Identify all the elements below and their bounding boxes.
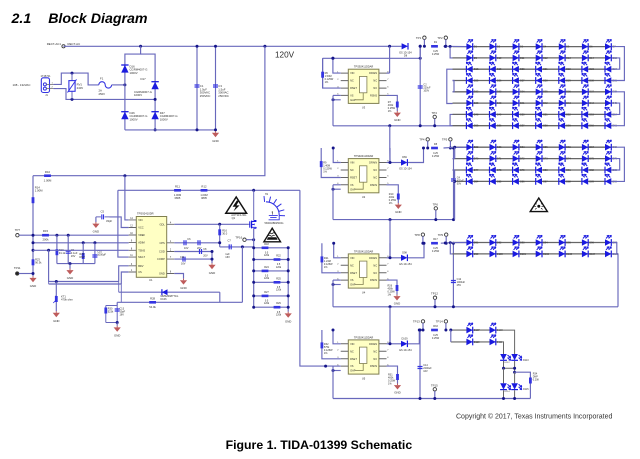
svg-text:D74: D74 — [566, 158, 571, 161]
ground U1 — [180, 279, 187, 291]
svg-text:D98: D98 — [402, 251, 407, 254]
svg-text:NC: NC — [373, 349, 377, 353]
op-amp U1 TPS92410DR — [136, 212, 166, 283]
label C10 — [97, 250, 106, 257]
wire fuse to bridge — [112, 84, 125, 86]
wire C4 vertical — [453, 148, 455, 220]
U4 pin stubs — [337, 256, 389, 280]
LED D58 — [536, 119, 549, 130]
wire bridge top right — [141, 54, 156, 99]
wire ch2 row 1 — [453, 146, 612, 148]
LED D92 — [490, 235, 503, 246]
wire TP14 stub — [445, 323, 447, 330]
thermistor KT1 mark — [53, 296, 55, 303]
wire C2 vertical — [419, 46, 421, 126]
svg-text:470k ohm: 470k ohm — [61, 298, 74, 302]
svg-text:TPS92411DDAR: TPS92411DDAR — [354, 249, 374, 253]
junction VIN feed — [123, 174, 126, 177]
svg-text:U4: U4 — [362, 290, 366, 294]
ground sense bank — [285, 312, 292, 324]
label R23 — [35, 257, 42, 264]
svg-text:R24: R24 — [264, 266, 269, 269]
op-amp U2 TPS92411DDAR — [348, 154, 379, 199]
label C16 value — [197, 247, 202, 250]
svg-text:ADIM: ADIM — [138, 241, 144, 245]
LED D23 — [582, 62, 595, 73]
op-amp U5 TPS92411DDAR — [348, 335, 379, 380]
LED D34 — [513, 85, 526, 96]
svg-text:R17: R17 — [433, 238, 438, 241]
svg-text:CPS: CPS — [159, 241, 165, 245]
label D8 part — [399, 52, 412, 58]
svg-text:D40: D40 — [497, 102, 502, 105]
transistor Q1 — [248, 190, 256, 228]
svg-text:2.1: 2.1 — [11, 11, 32, 27]
wire bank right rail — [287, 248, 289, 312]
wire U4 drain — [387, 257, 391, 259]
U1 pin stubs left — [129, 220, 137, 272]
svg-text:F1: F1 — [100, 77, 104, 81]
svg-text:D28: D28 — [543, 79, 548, 82]
svg-text:100V: 100V — [423, 90, 429, 93]
diode D46 — [121, 111, 147, 121]
svg-text:DRAIN: DRAIN — [369, 342, 377, 346]
label R28 — [150, 296, 155, 300]
svg-text:240V: 240V — [77, 86, 84, 90]
label R8 — [434, 143, 438, 146]
LED D62 — [466, 140, 479, 151]
junction C4 bottom — [452, 218, 455, 221]
label R18 value — [264, 251, 270, 257]
svg-text:R11: R11 — [175, 184, 180, 188]
diode D17 — [151, 82, 158, 90]
LED D20 — [513, 62, 526, 73]
svg-text:D34: D34 — [520, 91, 525, 94]
svg-text:D84: D84 — [474, 180, 479, 183]
LED D42 — [536, 96, 549, 107]
svg-text:D109: D109 — [402, 337, 409, 340]
svg-text:D75: D75 — [589, 158, 594, 161]
junction CS drop — [241, 245, 244, 248]
svg-text:VREF: VREF — [138, 233, 145, 237]
resistor R9 — [320, 161, 323, 167]
wire CS vertical — [121, 272, 128, 284]
wire ch1 bracket R r1-r4 — [612, 47, 625, 81]
wire bank rung R24 — [254, 270, 289, 272]
wire ch1 bracket L r7-r8 — [450, 114, 452, 125]
label R33 — [433, 325, 438, 328]
label R11 value — [174, 193, 181, 200]
svg-text:VCC: VCC — [138, 226, 144, 230]
label R9 — [323, 162, 332, 174]
LED D5 — [559, 39, 570, 50]
svg-text:D95: D95 — [566, 241, 571, 244]
LED D72 — [513, 151, 526, 162]
wire ch3 bracket L r1-r2 — [450, 243, 452, 254]
LED D108 — [490, 323, 504, 334]
svg-text:Copyright © 2017, Texas Instru: Copyright © 2017, Texas Instruments Inco… — [456, 413, 612, 421]
LED D55 — [466, 119, 479, 130]
U1 pin numbers — [130, 218, 172, 274]
wire ch3 feed to array — [441, 242, 467, 245]
svg-text:NC: NC — [373, 168, 377, 172]
svg-text:D67: D67 — [589, 146, 594, 149]
wire U3 bottom rail — [333, 125, 452, 127]
svg-text:D96: D96 — [589, 241, 594, 244]
wire R34 bottom — [529, 384, 531, 399]
capacitor C9 — [66, 251, 71, 253]
wire bridge right rail lower — [154, 99, 156, 129]
junction KT1 tap — [55, 280, 58, 283]
LED D81 — [559, 163, 572, 174]
label R1 — [434, 41, 438, 44]
test point TP4 — [419, 138, 429, 142]
wire U2 rsns — [387, 185, 399, 203]
wire after D8 — [419, 46, 421, 58]
svg-text:D32: D32 — [474, 91, 479, 94]
svg-text:D49: D49 — [497, 113, 502, 116]
wire U3 drain — [387, 72, 390, 74]
label C7 value — [225, 252, 230, 259]
junctions ch4 mid — [502, 367, 516, 374]
wire ch1 row 6 — [453, 102, 612, 104]
junction bridge AC2 — [154, 98, 157, 101]
svg-text:RSNS: RSNS — [370, 278, 377, 282]
svg-text:C7: C7 — [228, 239, 232, 243]
wire TP9 stub — [445, 236, 447, 243]
label R31 — [388, 374, 396, 386]
wire after D109 — [408, 330, 420, 344]
LED D75 — [582, 151, 595, 162]
LED D86 — [513, 174, 526, 185]
LED D6 — [582, 39, 593, 50]
section heading 2.1 Block Diagram — [11, 11, 148, 27]
junction TSNS drop — [47, 249, 50, 252]
test point TP15 — [431, 383, 438, 391]
svg-text:D55: D55 — [474, 125, 479, 128]
label R29 — [276, 302, 281, 305]
svg-text:1000V: 1000V — [160, 117, 168, 121]
LED D105 — [605, 247, 619, 258]
resistor R16 — [218, 229, 221, 235]
svg-text:GND: GND — [212, 139, 218, 143]
svg-text:D62: D62 — [474, 146, 479, 149]
svg-text:U3: U3 — [362, 106, 366, 110]
wire ch4 pair2 bottom left — [503, 390, 505, 398]
wire ch1 bracket L r4-r5 — [453, 81, 455, 92]
U1 pin stubs right — [167, 224, 175, 273]
LED D87 — [536, 174, 549, 185]
svg-text:120k: 120k — [264, 302, 270, 305]
junction TP6 rail — [434, 218, 437, 221]
LED D115 — [511, 383, 529, 391]
LED D40 — [490, 96, 503, 107]
label R25 value — [276, 286, 282, 292]
svg-text:U5: U5 — [362, 376, 366, 380]
wire bank rung R25 — [254, 281, 289, 283]
junctions VREF hang — [55, 234, 69, 237]
svg-text:GND: GND — [30, 284, 36, 288]
junction U5 vs-gap — [332, 369, 335, 372]
label C8 value — [203, 255, 208, 258]
svg-text:D112: D112 — [505, 362, 511, 364]
svg-text:D88: D88 — [566, 180, 571, 183]
label R19 — [59, 248, 66, 255]
wire U4 rsns — [387, 280, 398, 294]
svg-text:C11: C11 — [180, 256, 185, 259]
ground R30C13 — [114, 326, 121, 338]
svg-text:10V: 10V — [184, 247, 189, 250]
LED D15 — [605, 51, 618, 62]
wire U4 drain vertical — [389, 243, 391, 258]
svg-text:VIN: VIN — [138, 218, 142, 222]
wire ch1 row 5 — [453, 91, 612, 93]
junction C1 top — [196, 45, 199, 48]
wire GDL to gate — [174, 223, 248, 225]
wire ch1 feed to array — [444, 45, 467, 47]
svg-text:GDL: GDL — [159, 222, 165, 226]
LED D107 — [466, 323, 480, 334]
ground bridge output — [212, 131, 219, 143]
label R26 — [388, 285, 396, 297]
wire ch4 row1 — [451, 329, 498, 331]
wire CS lower line — [49, 283, 122, 285]
junction C3 bottom — [214, 128, 217, 131]
svg-text:120V: 120V — [275, 51, 295, 60]
svg-text:D110: D110 — [474, 341, 480, 344]
wire thermistor feed — [49, 250, 119, 281]
svg-text:D12: D12 — [543, 57, 548, 60]
svg-text:1000V: 1000V — [130, 71, 138, 75]
LED D33 — [490, 85, 503, 96]
junction C1 bottom — [196, 128, 199, 131]
svg-text:GND: GND — [394, 118, 400, 122]
junction U4 vin — [332, 242, 335, 245]
wire ch4 pair2 bottom right — [514, 390, 516, 398]
wire ch2 row 3 — [453, 169, 612, 171]
LED D13 — [559, 51, 572, 62]
LED D18 — [466, 62, 479, 73]
LED D37 — [582, 85, 595, 96]
junction U4 vs-gap — [332, 283, 335, 286]
junction D8 out — [419, 45, 422, 48]
svg-text:VS: VS — [350, 278, 354, 282]
wire ch1 bracket R r2-r3 — [612, 58, 620, 69]
junction tie gnd — [69, 262, 72, 265]
svg-text:D10: D10 — [497, 57, 502, 60]
resistor R1 — [431, 45, 438, 48]
svg-text:D60: D60 — [589, 125, 594, 128]
wire bank rung R29 — [254, 306, 289, 308]
resistor R27 — [262, 295, 269, 298]
junction TP5 — [449, 147, 452, 150]
wire ch1 bracket L r1-r2 — [450, 47, 452, 58]
label 108-132VAC — [13, 83, 31, 87]
svg-text:D57: D57 — [520, 125, 525, 128]
svg-text:ES 1D-154: ES 1D-154 — [399, 349, 412, 352]
svg-text:TPS92410DR: TPS92410DR — [137, 212, 154, 216]
junction TP4 — [426, 147, 429, 150]
label R33 value — [432, 334, 440, 340]
junctions ch1 feed — [444, 45, 452, 48]
label R27 value — [264, 300, 270, 306]
svg-text:DNP: DNP — [79, 255, 85, 259]
svg-text:VIN: VIN — [350, 342, 354, 346]
test point TP8 — [414, 233, 424, 237]
wire TP16 — [246, 239, 254, 241]
capacitor C14 — [418, 367, 423, 369]
svg-text:0805: 0805 — [175, 196, 181, 200]
LED D95 — [559, 235, 572, 246]
resistor R32 — [321, 342, 324, 348]
test point TP3 — [432, 111, 438, 119]
zener D106 — [162, 289, 168, 295]
svg-text:D93: D93 — [520, 241, 525, 244]
warning triangle laser ch2 — [530, 198, 547, 212]
wire U2 drain diode seg — [390, 162, 401, 164]
test point TP1 — [416, 36, 426, 40]
wire BDV zener line — [119, 291, 220, 293]
svg-text:D91: D91 — [474, 241, 479, 244]
wire top rail RECT-AC — [64, 45, 402, 47]
svg-text:DRAIN: DRAIN — [369, 256, 377, 260]
junction C2 bottom — [419, 124, 422, 127]
svg-text:D72: D72 — [520, 158, 525, 161]
wire BDV drop2 — [118, 282, 120, 293]
svg-text:0.25W: 0.25W — [432, 337, 440, 340]
wire ch2 bracket R r1-r4 — [612, 147, 625, 181]
wire CS lower line stub — [48, 282, 50, 285]
svg-text:RECT-AC1: RECT-AC1 — [47, 42, 62, 46]
svg-text:25V: 25V — [457, 284, 462, 287]
wire R16 vertical — [219, 224, 221, 247]
test point TP6 — [433, 202, 439, 210]
junction TP3 rail — [433, 124, 436, 127]
resistor R15 — [42, 234, 49, 237]
capacitor C6 — [184, 240, 186, 245]
svg-text:RSNS: RSNS — [370, 94, 377, 98]
svg-text:TP16: TP16 — [235, 235, 242, 239]
svg-text:D78: D78 — [497, 169, 502, 172]
label C8 — [203, 248, 207, 251]
junction main bus top — [263, 45, 266, 48]
ground cap cluster — [208, 263, 215, 275]
svg-text:D107: D107 — [474, 329, 480, 332]
svg-text:DRAIN: DRAIN — [369, 71, 377, 75]
svg-text:GND: GND — [395, 210, 401, 214]
svg-text:TP7: TP7 — [15, 228, 21, 232]
svg-text:D41: D41 — [520, 102, 525, 105]
wire zener to CS net — [219, 292, 221, 302]
LED D54 — [605, 107, 618, 118]
svg-text:D18: D18 — [474, 68, 479, 71]
label C14 — [423, 364, 432, 373]
svg-text:TP15: TP15 — [431, 383, 438, 387]
wire ch2 exit r4 stub — [453, 180, 455, 182]
capacitor C10 — [92, 255, 97, 257]
svg-text:D51: D51 — [543, 113, 548, 116]
wire bank left rail — [253, 248, 255, 307]
test point TP14 — [436, 320, 448, 324]
label R20 — [79, 252, 85, 259]
wire KT1 vertical — [55, 282, 57, 312]
LED D63 — [490, 140, 503, 151]
svg-text:D80: D80 — [543, 169, 548, 172]
label R17 — [433, 238, 438, 241]
wire U5 gap — [333, 370, 341, 372]
LED D36 — [559, 85, 572, 96]
wire ch4 pair1 join left — [504, 361, 515, 368]
LED D14 — [582, 51, 595, 62]
svg-text:AOT11S-60L: AOT11S-60L — [231, 213, 247, 217]
wire bridge left rail lower — [124, 85, 126, 130]
svg-text:D23: D23 — [589, 68, 594, 71]
wire ch1 row8 to rail — [451, 125, 454, 127]
wire ADIM line — [33, 242, 129, 244]
svg-text:90.3k: 90.3k — [35, 260, 42, 264]
capacitor C5 — [96, 210, 113, 223]
svg-text:D85: D85 — [497, 180, 502, 183]
junction VREF left bus — [32, 234, 35, 237]
svg-text:D29: D29 — [566, 79, 571, 82]
svg-text:RSNS: RSNS — [370, 183, 377, 187]
svg-text:D82: D82 — [589, 169, 594, 172]
wire U3 drain vertical — [389, 46, 391, 73]
resistor R22 — [274, 258, 281, 261]
wire U5 vin — [333, 330, 341, 344]
svg-text:GAP: GAP — [350, 283, 356, 287]
junction R30C13 bottom — [116, 321, 119, 324]
LED D113 — [511, 354, 529, 362]
capacitor C1 — [195, 84, 211, 98]
label R21 — [324, 257, 333, 269]
svg-text:TP4: TP4 — [419, 138, 425, 142]
svg-text:RSET: RSET — [350, 357, 357, 361]
wire ch4 row2 feed — [450, 330, 452, 342]
wire TSNS line — [33, 249, 129, 251]
capacitor C7 — [229, 244, 231, 249]
junction RV1 bottom — [71, 98, 74, 101]
LED D9 — [466, 51, 477, 62]
svg-text:Figure 1. TIDA-01399 Schematic: Figure 1. TIDA-01399 Schematic — [226, 438, 413, 452]
svg-text:D53: D53 — [589, 113, 594, 116]
junction U3 vs-gap — [332, 98, 335, 101]
LED D90 — [605, 174, 618, 185]
wire U4 rset — [322, 243, 341, 273]
LED D68 — [605, 140, 618, 151]
LED D27 — [513, 73, 526, 84]
label C13 — [120, 307, 126, 316]
svg-text:RSET: RSET — [350, 86, 357, 90]
junction TSNS left bus — [32, 249, 35, 252]
LED D11 — [513, 51, 525, 62]
wire U5 vs drop — [332, 366, 334, 398]
svg-text:16V: 16V — [71, 254, 76, 258]
test point TP12 — [431, 292, 438, 300]
warning triangle high voltage — [226, 197, 247, 213]
wire MULT drop — [118, 190, 129, 257]
label R11 — [175, 184, 180, 188]
junction U5 drain — [389, 342, 392, 345]
junction TP8 — [421, 242, 424, 245]
label D109 — [402, 337, 409, 340]
junction U2 drain — [389, 161, 392, 164]
junction C12 top — [452, 242, 455, 245]
svg-text:16V: 16V — [423, 370, 428, 373]
svg-text:D69: D69 — [402, 156, 407, 159]
wire C3 vertical — [215, 46, 217, 130]
svg-text:COMP: COMP — [157, 257, 165, 261]
